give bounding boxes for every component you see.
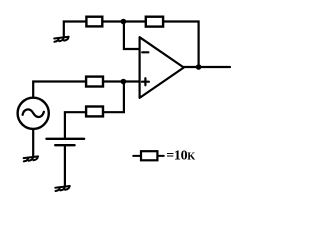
svg-text:=10K: =10K [166,149,195,164]
battery V2 top plate [46,138,84,140]
resistor R2 [146,17,163,27]
voltage source V1 circle [18,98,49,129]
wire R3 to non-inverting input through node C [104,80,139,82]
legend resistor box [141,151,157,160]
wire output apex to right [184,66,230,68]
node A [121,19,127,25]
wire ground G1 to R1 [64,22,86,37]
resistor R3 [86,77,103,87]
wire node A down to inverting input [124,22,139,50]
legend resistor lead right [158,155,163,157]
voltage source V1 sine wave [23,109,44,117]
ground G1 [54,37,68,42]
ground G2 [24,156,38,161]
resistor R4 [86,107,103,117]
battery V2 bottom plate [55,144,74,146]
op-amp U1 [140,37,184,98]
wire R4 to battery top [65,112,86,137]
wire node C down to R4 [105,82,124,113]
legend resistor lead left [133,155,140,157]
wire R2 to feedback corner down to node B [164,22,198,67]
op-amp U1 plus label [142,78,149,85]
node C [121,79,127,85]
wire battery to ground G3 [64,145,66,186]
wire sine source bottom to ground G2 [32,130,34,157]
wire R1 to R2 through node A [104,20,145,22]
wire sine source top to R3 [33,82,85,97]
node B output junction [196,64,202,70]
resistor R1 [86,17,102,27]
op-amp U1 minus label [142,51,148,53]
ground G3 [55,186,70,191]
